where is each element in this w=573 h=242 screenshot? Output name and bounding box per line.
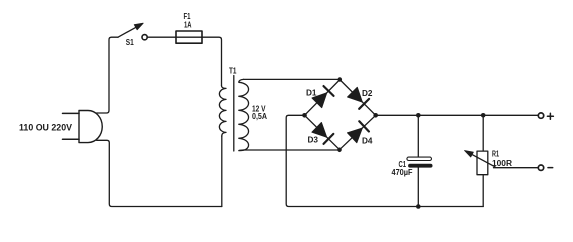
terminal negative circle bbox=[538, 165, 543, 170]
svg-text:D1: D1 bbox=[306, 89, 317, 98]
capacitor C1 top plate bbox=[407, 157, 432, 160]
wire plug bottom to bottom rail bbox=[97, 140, 222, 206]
label plus bbox=[547, 113, 553, 119]
svg-text:R1: R1 bbox=[492, 150, 499, 159]
fuse F1 through-wire bbox=[176, 36, 202, 38]
wire bottom rail up to R1 bbox=[482, 175, 484, 207]
wire plug top to switch bbox=[97, 37, 119, 113]
rheostat R1 wiper arrowhead bbox=[465, 151, 474, 158]
plug bottom prong bbox=[63, 138, 80, 140]
rheostat R1 top lead bbox=[482, 115, 484, 151]
svg-text:D4: D4 bbox=[362, 137, 373, 146]
junction node left of bridge bbox=[302, 113, 307, 118]
svg-text:0,5A: 0,5A bbox=[252, 112, 267, 121]
rheostat R1 wiper arrow line bbox=[470, 153, 495, 167]
svg-text:470µF: 470µF bbox=[392, 168, 413, 177]
transformer T1 primary winding bbox=[219, 86, 226, 136]
junction dot C1 tap top bbox=[416, 113, 421, 118]
capacitor C1 top lead bbox=[417, 115, 419, 157]
wire wiper to minus terminal bbox=[494, 167, 539, 169]
switch S1 contact circle bbox=[142, 35, 147, 40]
capacitor C1 bottom lead bbox=[417, 168, 419, 207]
junction node top of bridge bbox=[338, 77, 343, 82]
svg-text:S1: S1 bbox=[126, 38, 134, 47]
capacitor C1 bottom plate bbox=[408, 164, 432, 168]
switch S1 blade bbox=[118, 26, 138, 37]
transformer T1 secondary winding bbox=[239, 79, 249, 150]
wire secondary bottom to bridge bbox=[244, 149, 340, 151]
plug top prong bbox=[63, 112, 80, 114]
diode D4 bbox=[348, 121, 369, 142]
wire secondary top to bridge bbox=[244, 78, 340, 80]
wire positive rail bbox=[376, 114, 539, 116]
junction node right of bridge bbox=[373, 113, 378, 118]
junction dot R1 tap top bbox=[481, 113, 486, 118]
svg-text:110 OU 220V: 110 OU 220V bbox=[19, 122, 73, 133]
svg-text:T1: T1 bbox=[229, 66, 237, 75]
bridge diamond wires bbox=[305, 80, 376, 150]
svg-text:D3: D3 bbox=[308, 136, 319, 145]
label minus bbox=[548, 167, 553, 169]
switch S1 arrowhead bbox=[134, 23, 143, 30]
svg-text:100R: 100R bbox=[492, 159, 512, 168]
svg-text:D2: D2 bbox=[362, 89, 373, 98]
rheostat R1 body bbox=[477, 151, 488, 175]
svg-text:1A: 1A bbox=[184, 20, 192, 29]
wire primary bottom to bottom rail bbox=[221, 136, 223, 206]
junction node bottom of bridge bbox=[337, 148, 342, 153]
wire switch to fuse bbox=[147, 36, 176, 38]
wire fuse to transformer primary bbox=[202, 37, 222, 86]
diode D1 bbox=[312, 86, 334, 108]
transformer T1 core bbox=[233, 76, 235, 152]
fuse F1 body bbox=[176, 31, 202, 43]
wire bridge left corner to bottom rail bbox=[286, 115, 483, 206]
terminal positive circle bbox=[538, 113, 543, 118]
junction dot C1 bottom rail bbox=[416, 204, 421, 209]
diode D2 bbox=[348, 87, 370, 109]
diode D3 bbox=[312, 123, 333, 144]
AC plug bbox=[79, 111, 102, 143]
